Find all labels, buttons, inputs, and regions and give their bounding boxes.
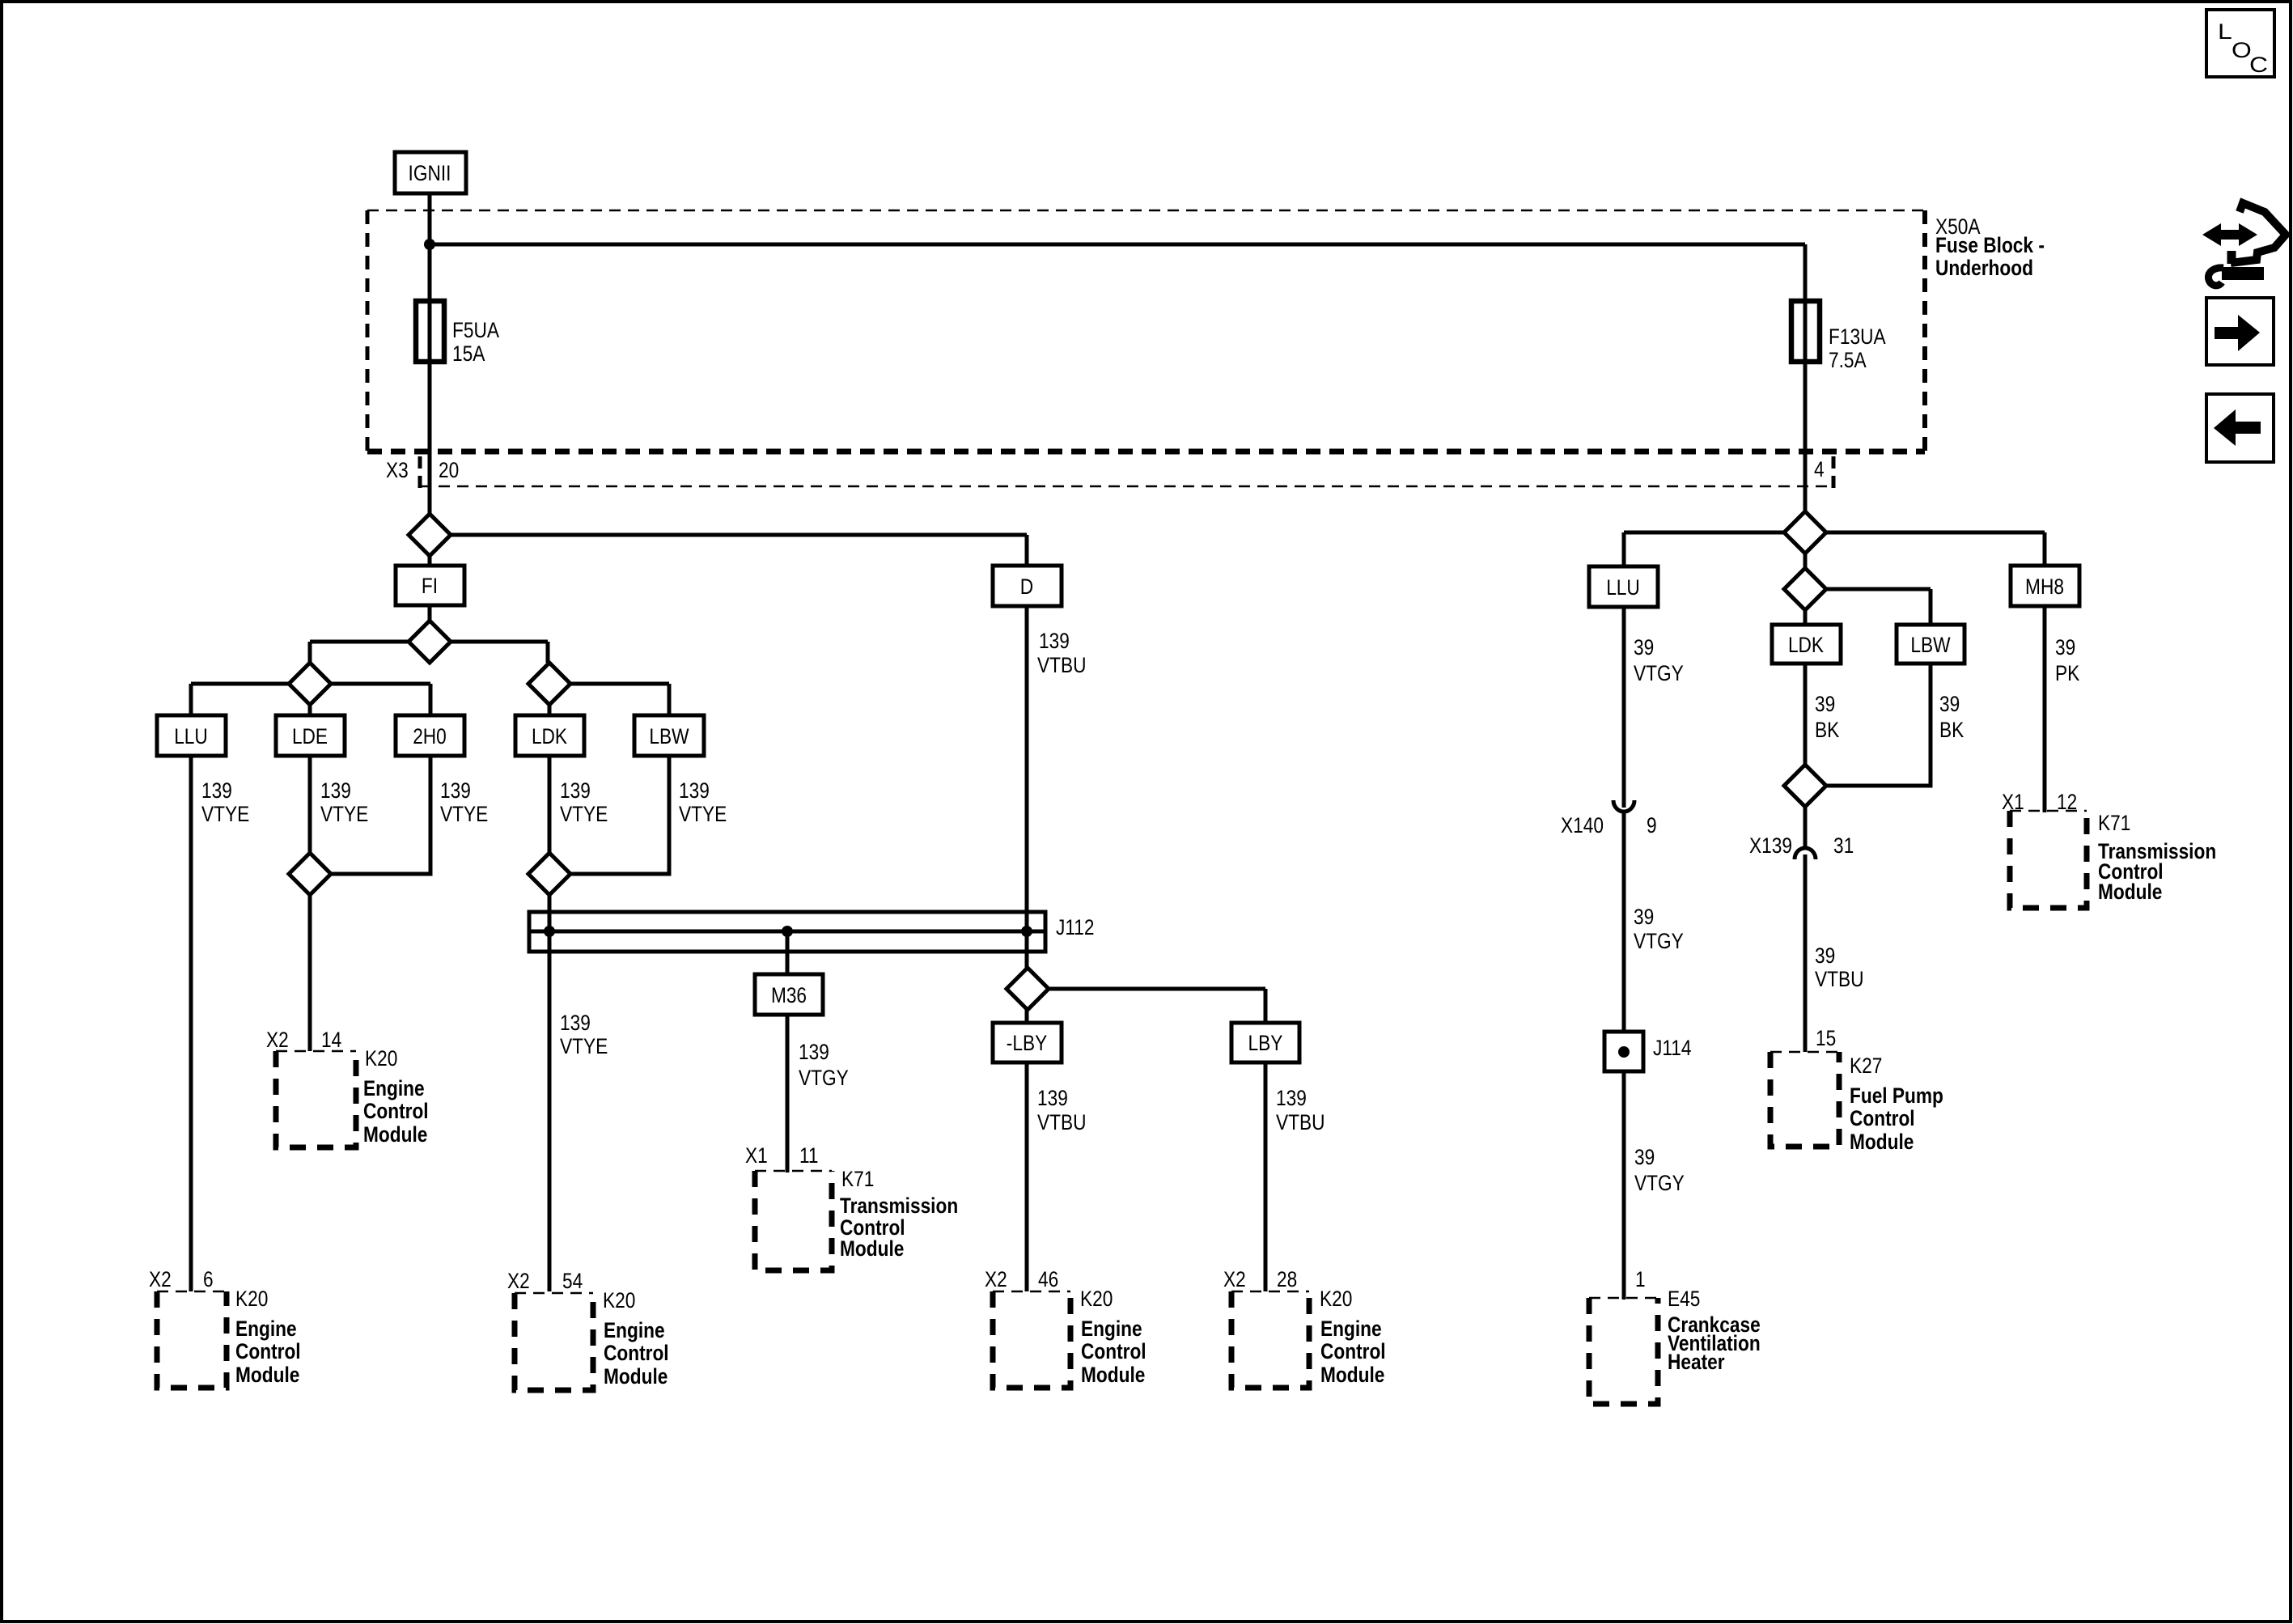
- splice diamond S3: [289, 663, 331, 705]
- connector pin 4 (right): [1814, 456, 1833, 492]
- svg-text:VTGY: VTGY: [1634, 1171, 1685, 1195]
- svg-text:6: 6: [203, 1267, 214, 1291]
- splice diamond S9: [1784, 568, 1826, 610]
- wire drop to MH8: [2043, 532, 2047, 566]
- wire label 39 PK (MH8): [2055, 635, 2079, 685]
- svg-text:VTBU: VTBU: [1037, 1110, 1087, 1134]
- module K20 ECM (X2-14) dashed box: [276, 1046, 429, 1147]
- wire label 139 VTYE (LDK): [560, 778, 608, 826]
- pins X1 11: [745, 1143, 819, 1168]
- svg-text:15: 15: [1816, 1026, 1836, 1050]
- svg-text:139: 139: [799, 1040, 829, 1064]
- svg-text:46: 46: [1038, 1267, 1058, 1291]
- wire label 139 VTYE (LDE): [320, 778, 368, 826]
- wire label 139 VTYE (below J112): [560, 1011, 608, 1058]
- svg-text:139: 139: [679, 778, 710, 803]
- wire drop to 2H0: [429, 684, 433, 715]
- svg-text:VTYE: VTYE: [560, 1034, 608, 1058]
- svg-text:LLU: LLU: [174, 724, 208, 748]
- wire drop to LBW right: [1929, 589, 1933, 625]
- wire drop to LLU: [189, 684, 193, 715]
- module K20 ECM (X2-6) dashed box: [157, 1287, 301, 1388]
- wire X139 down to K27: [1803, 854, 1808, 1052]
- svg-text:Module: Module: [2098, 880, 2162, 904]
- label box LLU (right): [1589, 566, 1658, 607]
- svg-text:M36: M36: [771, 983, 807, 1007]
- forward arrow box: [2206, 298, 2274, 365]
- splice diamond S10: [1784, 765, 1826, 807]
- fuse block name X50A: [1935, 214, 2045, 280]
- wire label 139 VTBU (D): [1037, 629, 1087, 677]
- back arrow box: [2206, 394, 2274, 462]
- svg-text:Fuel Pump: Fuel Pump: [1850, 1083, 1943, 1108]
- wire LBY down: [1264, 1062, 1268, 1291]
- svg-text:14: 14: [321, 1028, 341, 1052]
- svg-text:VTYE: VTYE: [201, 802, 249, 826]
- wire M36 drop: [786, 931, 790, 974]
- pins X2 46: [985, 1267, 1058, 1291]
- wire from IGNII down through F5UA: [428, 193, 432, 566]
- svg-text:139: 139: [560, 778, 591, 803]
- wire label 39 VTGY (LLU right): [1634, 635, 1684, 685]
- label box LBW (right): [1897, 625, 1965, 664]
- svg-text:VTBU: VTBU: [1037, 653, 1087, 677]
- svg-text:Engine: Engine: [363, 1076, 425, 1100]
- svg-text:K27: K27: [1850, 1054, 1882, 1078]
- svg-text:Module: Module: [604, 1364, 668, 1389]
- svg-text:1: 1: [1635, 1267, 1646, 1291]
- wire FI down to splice S2: [428, 605, 432, 663]
- label box MH8: [2011, 566, 2079, 606]
- LOC box: [2206, 10, 2274, 77]
- wire MH8 down to K71: [2043, 606, 2047, 812]
- pins X1 12: [2002, 790, 2077, 814]
- wire LBW right down to splice S10: [1805, 664, 1931, 786]
- module K71 (TCM) dashed box: [755, 1167, 958, 1270]
- label box LBW (left): [634, 715, 704, 756]
- svg-text:9: 9: [1647, 813, 1657, 837]
- fuse F5UA 15A: [416, 301, 499, 366]
- wire -LBY down: [1025, 1062, 1029, 1291]
- label box LDK (right): [1772, 625, 1841, 664]
- svg-text:139: 139: [201, 778, 232, 803]
- svg-text:K20: K20: [235, 1287, 268, 1311]
- svg-text:Control: Control: [363, 1099, 429, 1123]
- wire S3 vertical to LDE: [308, 663, 312, 715]
- svg-text:VTYE: VTYE: [679, 802, 727, 826]
- wire S7 right arm: [1028, 987, 1265, 991]
- svg-text:K20: K20: [1080, 1287, 1113, 1311]
- svg-text:Engine: Engine: [1320, 1317, 1382, 1341]
- label box LDK (left): [515, 715, 584, 756]
- svg-text:C: C: [2249, 53, 2268, 77]
- svg-text:Module: Module: [363, 1122, 427, 1147]
- label box 2H0: [396, 715, 464, 756]
- splice pack J114: [1604, 1032, 1692, 1071]
- svg-text:VTYE: VTYE: [560, 802, 608, 826]
- pins X2 28: [1223, 1267, 1297, 1291]
- svg-text:Engine: Engine: [1081, 1317, 1142, 1341]
- svg-text:L: L: [2218, 19, 2232, 44]
- svg-text:K71: K71: [2098, 811, 2130, 835]
- svg-text:X2: X2: [1223, 1267, 1246, 1291]
- wire label 39 BK (LDK right): [1815, 692, 1839, 742]
- svg-text:39: 39: [2055, 635, 2075, 659]
- wire S1 to D box (horizontal): [430, 533, 1027, 537]
- wire drop to LBW: [668, 684, 672, 715]
- svg-text:VTBU: VTBU: [1815, 967, 1864, 991]
- svg-text:Control: Control: [604, 1341, 669, 1365]
- svg-text:K20: K20: [603, 1288, 635, 1312]
- splice diamond S5: [289, 853, 331, 895]
- wire drop to S3: [308, 642, 312, 663]
- splice diamond S2: [409, 621, 451, 663]
- svg-text:LBW: LBW: [649, 724, 689, 748]
- splice diamond S4: [528, 663, 570, 705]
- svg-text:X1: X1: [745, 1143, 768, 1168]
- svg-text:Underhood: Underhood: [1935, 256, 2033, 280]
- label box LBY: [1231, 1023, 1299, 1062]
- svg-text:28: 28: [1277, 1267, 1297, 1291]
- wire drop to S4: [546, 642, 550, 663]
- wire S3 horizontal arm: [191, 682, 430, 686]
- svg-text:Control: Control: [1320, 1339, 1386, 1363]
- svg-text:139: 139: [320, 778, 351, 803]
- module K20 ECM (X2-54) dashed box: [515, 1288, 669, 1390]
- svg-text:LDE: LDE: [292, 724, 328, 748]
- label box D: [993, 566, 1062, 606]
- label box LDE: [276, 715, 345, 756]
- svg-text:-LBY: -LBY: [1007, 1031, 1047, 1055]
- pins X2 6: [149, 1267, 214, 1291]
- wire S4 vertical to LDK: [548, 663, 552, 715]
- wire label 139 VTBU (LBY): [1276, 1086, 1325, 1134]
- svg-text:31: 31: [1833, 833, 1854, 858]
- svg-text:LDK: LDK: [532, 724, 567, 748]
- svg-text:39: 39: [1634, 1145, 1655, 1169]
- module K71 (TCM right) dashed box: [2010, 811, 2216, 908]
- svg-text:20: 20: [439, 458, 459, 482]
- svg-text:X2: X2: [266, 1028, 289, 1052]
- wire M36 to K71: [786, 1015, 790, 1172]
- lower thin dashed connector line: [420, 486, 1833, 488]
- svg-text:MH8: MH8: [2025, 575, 2064, 599]
- wire 2H0 down to splice S5: [310, 756, 430, 874]
- wire drop to LBY: [1264, 989, 1268, 1023]
- svg-text:FI: FI: [422, 574, 438, 598]
- svg-text:139: 139: [440, 778, 471, 803]
- svg-text:VTGY: VTGY: [1634, 661, 1684, 685]
- power feed IGNII: [395, 152, 466, 193]
- svg-text:VTYE: VTYE: [320, 802, 368, 826]
- label box FI: [396, 566, 464, 605]
- svg-text:E45: E45: [1668, 1287, 1700, 1311]
- svg-text:X2: X2: [985, 1267, 1007, 1291]
- svg-text:Control: Control: [1081, 1339, 1146, 1363]
- svg-text:2H0: 2H0: [413, 724, 447, 748]
- wire label 139 VTYE (LBW): [679, 778, 727, 826]
- wire LLU down to K20: [189, 756, 193, 1291]
- svg-text:IGNII: IGNII: [409, 161, 451, 185]
- main bus wire across fuse block: [430, 243, 1805, 247]
- svg-text:LLU: LLU: [1606, 575, 1640, 600]
- svg-text:K71: K71: [841, 1167, 874, 1191]
- svg-text:BK: BK: [1939, 718, 1964, 742]
- wire J114 down to E45: [1622, 1071, 1626, 1300]
- fuse F13UA 7.5A: [1791, 301, 1886, 372]
- inline connector X140 pin 9: [1561, 800, 1657, 837]
- wire LLU right down to X140: [1622, 607, 1626, 808]
- svg-text:7.5A: 7.5A: [1829, 348, 1867, 372]
- wire label 39 VTGY: [1634, 1145, 1685, 1195]
- harness routing icon (squiggle with double arrow): [2202, 203, 2286, 286]
- svg-text:Module: Module: [235, 1363, 299, 1387]
- svg-text:54: 54: [562, 1269, 583, 1293]
- wire label 39 BK (LBW right): [1939, 692, 1964, 742]
- svg-text:PK: PK: [2055, 661, 2079, 685]
- svg-text:X2: X2: [149, 1267, 172, 1291]
- svg-text:39: 39: [1634, 635, 1654, 659]
- svg-text:Module: Module: [1081, 1363, 1145, 1387]
- svg-text:Control: Control: [235, 1339, 301, 1363]
- wire label 139 VTGY (M36): [799, 1040, 849, 1090]
- inline connector X139 pin 31: [1749, 833, 1854, 859]
- svg-text:Engine: Engine: [604, 1318, 665, 1342]
- wire S4 right arm: [549, 682, 669, 686]
- svg-text:X3: X3: [386, 458, 409, 482]
- splice diamond S1: [409, 514, 451, 556]
- svg-text:4: 4: [1814, 457, 1825, 481]
- svg-text:X2: X2: [507, 1269, 530, 1293]
- svg-text:139: 139: [1037, 1086, 1068, 1110]
- svg-text:Control: Control: [1850, 1106, 1915, 1130]
- svg-text:Fuse Block -: Fuse Block -: [1935, 233, 2045, 257]
- svg-text:Engine: Engine: [235, 1317, 297, 1341]
- wire LBW down to splice S6: [549, 756, 669, 874]
- label box LLU (left): [157, 715, 226, 756]
- svg-text:VTBU: VTBU: [1276, 1110, 1325, 1134]
- junction dot: [424, 239, 435, 250]
- module K20 ECM (X2-46) dashed box: [993, 1287, 1146, 1388]
- wire label 139 VTYE (2H0): [440, 778, 488, 826]
- wire label 39 VTBU: [1815, 943, 1864, 991]
- label box -LBY: [993, 1023, 1062, 1062]
- svg-text:139: 139: [1039, 629, 1070, 653]
- fuse block X50A dashed outline: [367, 210, 1925, 452]
- svg-text:J114: J114: [1653, 1036, 1692, 1060]
- wire LDK down through J112: [548, 756, 552, 1291]
- component E45 Crankcase Ventilation Heater dashed box: [1589, 1287, 1761, 1404]
- svg-text:VTYE: VTYE: [440, 802, 488, 826]
- svg-text:X139: X139: [1749, 833, 1792, 858]
- svg-text:11: 11: [799, 1143, 819, 1168]
- wire LDE down: [308, 756, 312, 1051]
- svg-text:K20: K20: [365, 1046, 397, 1071]
- svg-text:39: 39: [1634, 905, 1654, 929]
- svg-text:139: 139: [560, 1011, 591, 1035]
- svg-text:39: 39: [1939, 692, 1960, 716]
- wire drop to LLU right: [1622, 532, 1626, 566]
- svg-text:F13UA: F13UA: [1829, 324, 1886, 349]
- wire S2 horizontal arm: [310, 640, 548, 644]
- svg-text:39: 39: [1815, 692, 1835, 716]
- splice diamond S8: [1784, 511, 1826, 553]
- wire S9 right arm: [1805, 587, 1931, 592]
- svg-text:VTGY: VTGY: [1634, 929, 1684, 953]
- svg-text:K20: K20: [1320, 1287, 1352, 1311]
- svg-text:Heater: Heater: [1668, 1350, 1725, 1374]
- svg-text:BK: BK: [1815, 718, 1839, 742]
- svg-text:LBY: LBY: [1248, 1031, 1283, 1055]
- wire S8 to S9: [1803, 553, 1808, 625]
- svg-text:LDK: LDK: [1788, 633, 1824, 657]
- splice diamond S6: [528, 853, 570, 895]
- wire label 139 VTYE (LLU): [201, 778, 249, 826]
- right feed wire down through F13UA: [1803, 244, 1808, 568]
- svg-text:15A: 15A: [452, 341, 485, 366]
- svg-text:39: 39: [1815, 943, 1835, 968]
- svg-text:139: 139: [1276, 1086, 1307, 1110]
- wire D down through J112 to splice S7: [1025, 606, 1029, 1023]
- wire drop into D box: [1025, 535, 1029, 566]
- pins X2 54: [507, 1269, 583, 1293]
- svg-text:VTGY: VTGY: [799, 1066, 849, 1090]
- svg-text:F5UA: F5UA: [452, 318, 499, 342]
- svg-text:J112: J112: [1056, 915, 1095, 939]
- splice diamond S7: [1007, 968, 1049, 1010]
- connector pin row X3 / 20: [386, 456, 459, 492]
- splice pack J112: [529, 912, 1095, 952]
- wire X140 down to J114: [1622, 811, 1626, 1032]
- svg-text:Module: Module: [1320, 1363, 1384, 1387]
- svg-text:Module: Module: [1850, 1130, 1914, 1154]
- module K20 ECM (X2-28) dashed box: [1231, 1287, 1386, 1388]
- svg-text:LBW: LBW: [1910, 633, 1951, 657]
- svg-text:Transmission: Transmission: [840, 1194, 958, 1218]
- wire label 139 VTBU (-LBY): [1037, 1086, 1087, 1134]
- label box M36: [755, 974, 823, 1015]
- module K27 Fuel Pump Control Module dashed box: [1770, 1052, 1943, 1154]
- wire label 39 VTGY: [1634, 905, 1684, 953]
- pins X2 14: [266, 1028, 341, 1052]
- svg-text:X140: X140: [1561, 813, 1604, 837]
- wire LDK right down to X139: [1803, 664, 1808, 847]
- svg-text:D: D: [1020, 575, 1033, 599]
- wire S8 horizontal arm: [1624, 531, 2045, 535]
- svg-text:Module: Module: [840, 1236, 904, 1261]
